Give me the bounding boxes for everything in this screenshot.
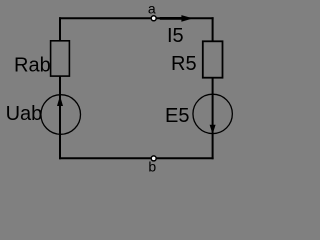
wire bottom (node b) [59, 157, 214, 159]
node a [151, 16, 156, 21]
svg-text:E5: E5 [165, 105, 189, 127]
svg-text:R5: R5 [171, 53, 197, 75]
wire top (node a to corners) [59, 17, 214, 19]
current arrow I5 head [181, 15, 193, 22]
svg-text:Uab: Uab [6, 103, 43, 125]
source E5 circle [193, 94, 232, 133]
wire right branch [212, 17, 214, 159]
wire left branch [59, 17, 61, 159]
node b [151, 156, 156, 161]
svg-text:a: a [148, 1, 156, 17]
svg-text:Rab: Rab [14, 55, 51, 77]
svg-text:I5: I5 [167, 25, 184, 47]
source Uab circle [41, 95, 81, 135]
current arrow I5 shaft [160, 17, 183, 20]
source Uab arrowhead (up) [57, 96, 63, 106]
svg-text:b: b [148, 159, 156, 175]
source E5 arrowhead (down) [210, 125, 216, 134]
resistor R5 [203, 41, 223, 77]
resistor Rab [51, 41, 70, 76]
